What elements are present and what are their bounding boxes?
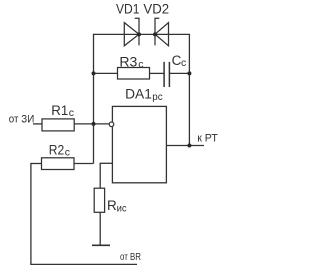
node R3 left junction bbox=[92, 71, 96, 75]
wire R3 row bbox=[94, 72, 118, 74]
svg-text:с: с bbox=[181, 57, 186, 69]
svg-text:к РТ: к РТ bbox=[197, 132, 218, 144]
node output junction bbox=[187, 144, 191, 148]
resistor R3 bbox=[118, 68, 150, 80]
svg-text:от BR: от BR bbox=[120, 251, 141, 263]
wire Rис to ground bbox=[99, 212, 101, 245]
diode VD2 (zener) bbox=[155, 18, 169, 46]
ground bbox=[92, 244, 110, 246]
inverting input bubble bbox=[109, 122, 114, 127]
wire R1 to inverting input bbox=[74, 123, 109, 125]
resistor R1 bbox=[42, 119, 74, 131]
svg-text:R1: R1 bbox=[51, 103, 68, 118]
diode VD1 (zener) bbox=[124, 18, 139, 46]
svg-text:R2: R2 bbox=[49, 142, 64, 157]
svg-text:с: с bbox=[69, 107, 74, 119]
svg-text:ис: ис bbox=[117, 203, 127, 215]
wire top feedback bbox=[94, 33, 190, 35]
wire drop to Rис bbox=[99, 163, 101, 189]
svg-text:R: R bbox=[107, 198, 117, 213]
resistor Rис (vertical) bbox=[94, 188, 104, 212]
wire right feedback rail bbox=[188, 34, 190, 146]
svg-text:с: с bbox=[65, 146, 70, 158]
wire left feedback rail bbox=[93, 34, 95, 164]
node inverting input junction bbox=[92, 122, 96, 126]
wire R2 to rail bbox=[31, 163, 42, 165]
wire left drop from R2 bbox=[30, 163, 32, 265]
svg-text:от ЗИ: от ЗИ bbox=[9, 113, 35, 125]
resistor R2 bbox=[42, 158, 75, 170]
node diode VD2 cathode junction bbox=[153, 32, 157, 36]
wire bottom from BR bbox=[30, 263, 137, 265]
svg-text:R3: R3 bbox=[119, 54, 137, 69]
wire output to РТ bbox=[166, 145, 204, 147]
svg-text:рс: рс bbox=[152, 91, 162, 103]
svg-text:с: с bbox=[138, 59, 143, 71]
node C right junction bbox=[187, 71, 191, 75]
wire noninverting input row bbox=[100, 162, 112, 164]
svg-text:VD2: VD2 bbox=[143, 1, 169, 17]
svg-text:DA1: DA1 bbox=[125, 86, 152, 102]
op-amp box DA1 bbox=[112, 106, 166, 182]
wire from ЗИ to R1 bbox=[33, 123, 42, 125]
capacitor C bbox=[164, 62, 169, 87]
svg-text:VD1: VD1 bbox=[116, 1, 140, 17]
node diode VD1 cathode junction bbox=[137, 32, 141, 36]
